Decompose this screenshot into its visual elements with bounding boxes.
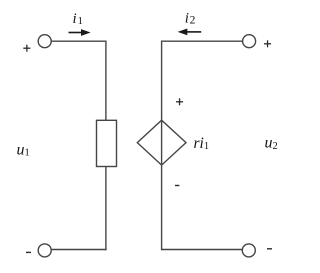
terminal: port 2 top — [243, 35, 256, 48]
terminal: port 2 bottom — [242, 244, 255, 257]
polarity - (port 2 bottom) — [267, 248, 272, 250]
wire: top-right horizontal — [162, 40, 243, 42]
wire: left vertical upper — [105, 41, 107, 122]
resistor (left branch) — [97, 120, 117, 166]
wire: top-left horizontal — [51, 40, 106, 42]
wire: bottom-right horizontal — [161, 249, 242, 251]
polarity + (source top) — [176, 98, 183, 105]
terminal: port 1 bottom — [38, 244, 51, 257]
svg-text:u1: u1 — [17, 142, 30, 159]
wire: bottom-left horizontal — [51, 249, 106, 251]
svg-text:u2: u2 — [265, 135, 278, 152]
svg-text:i2: i2 — [185, 10, 196, 26]
svg-text:i1: i1 — [73, 11, 83, 27]
current arrow i2 (pointing left) — [178, 29, 202, 36]
wire: left vertical lower — [105, 166, 107, 250]
svg-text:ri1: ri1 — [194, 135, 210, 152]
polarity - (port 1 bottom) — [26, 251, 31, 253]
polarity + (port 1 top) — [23, 45, 30, 52]
current arrow i1 (pointing right) — [69, 29, 91, 36]
polarity - (source bottom) — [175, 185, 179, 187]
polarity + (port 2 top) — [264, 40, 271, 47]
dependent source ri1 (diamond) — [137, 120, 186, 165]
terminal: port 1 top — [38, 35, 51, 48]
wire: right vertical through source — [161, 41, 163, 251]
